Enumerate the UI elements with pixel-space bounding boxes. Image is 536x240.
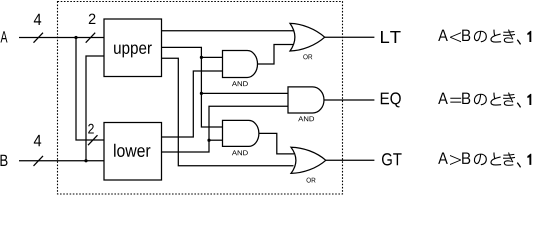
LT condition glyph A	[438, 30, 448, 41]
GT condition kana no	[474, 154, 487, 166]
wire EQ output from AND2	[324, 99, 374, 101]
GT condition kana ki	[503, 152, 515, 165]
wire AND1 output to OR1 bottom input	[258, 45, 295, 65]
EQ condition kana no	[474, 94, 487, 106]
wire upper EQ branch to AND1 top input	[201, 56, 222, 58]
label AND3	[232, 150, 248, 155]
label upper block	[114, 44, 152, 57]
LT condition comma	[517, 39, 521, 45]
EQ condition comma	[517, 102, 521, 108]
EQ condition kana to	[490, 93, 501, 106]
wire input B (4-bit bus)	[19, 160, 104, 162]
label LT output	[381, 31, 401, 43]
junction dot on B wire	[84, 159, 87, 162]
LT condition kana to	[490, 30, 501, 43]
wire A lower-bits branch to lower block	[76, 38, 104, 141]
slash 2-bit marker A into upper	[86, 33, 96, 43]
label AND2	[298, 116, 314, 121]
wire input A (4-bit bus)	[19, 37, 104, 39]
junction dot on A wire	[74, 36, 77, 39]
wire lower EQ output trunk to AND2 bottom input	[162, 106, 289, 152]
slash bus-width marker on A wire	[34, 33, 44, 43]
wire lower LT output to AND1 bottom input	[162, 71, 223, 137]
GT condition glyph B	[462, 153, 470, 164]
LT condition digit 1	[527, 31, 531, 42]
wire LT output from OR1	[325, 36, 375, 38]
wire lower EQ branch to AND3 bottom input	[209, 139, 223, 141]
wire upper LT output to OR1 top input	[162, 30, 295, 32]
junction dot upperEQ to AND1	[200, 56, 203, 59]
junction dot upperEQ to AND2	[200, 92, 203, 95]
label 4 bits on B bus	[34, 135, 41, 146]
and-gate AND2 (EQ output gate)	[288, 87, 324, 113]
label AND1	[232, 81, 248, 86]
junction dot lowerEQ to AND3	[207, 139, 210, 142]
EQ condition equals sign	[450, 98, 461, 103]
LT condition kana ki	[503, 29, 515, 42]
label lower block	[114, 144, 150, 157]
label EQ output	[381, 92, 401, 107]
and-gate AND1 (upperEQ and lowerLT)	[223, 51, 258, 78]
wire upper EQ output distribution trunk	[162, 47, 223, 127]
label OR1	[303, 54, 312, 59]
wire upper EQ branch to AND2 top input	[201, 92, 288, 94]
GT condition digit 1	[527, 154, 531, 165]
block lower (2-bit comparator)	[104, 123, 162, 181]
GT condition compare sign	[450, 155, 461, 165]
and-gate AND3 (GT path gate)	[223, 120, 259, 146]
label GT output	[382, 153, 402, 165]
GT condition comma	[517, 162, 521, 168]
wire AND3 output to OR2 top input	[259, 133, 294, 154]
label input B	[0, 155, 7, 166]
GT condition glyph A	[438, 153, 448, 164]
LT condition compare sign	[450, 32, 461, 42]
GT condition kana to	[490, 153, 501, 166]
label OR2	[307, 178, 316, 183]
EQ condition glyph A	[438, 93, 448, 104]
EQ condition kana ki	[503, 92, 515, 105]
LT condition kana no	[474, 31, 487, 43]
or-gate OR2 (GT output gate)	[291, 147, 326, 173]
label 4 bits on A bus	[34, 14, 41, 25]
or-gate OR1 (LT output gate)	[290, 23, 325, 51]
EQ condition digit 1	[527, 94, 531, 105]
label input A	[1, 31, 8, 42]
dotted border frame of comparator block	[58, 2, 343, 195]
slash bus-width marker on B wire	[34, 156, 44, 166]
slash 2-bit marker A into lower	[88, 135, 98, 145]
EQ condition glyph B	[462, 93, 470, 104]
wire B upper-bits branch to upper block	[86, 56, 104, 161]
wire upper GT output to OR2 bottom input	[162, 58, 294, 166]
block upper (2-bit comparator)	[104, 19, 162, 77]
wire GT output from OR2	[326, 159, 375, 161]
label 2 bits into lower	[88, 124, 94, 134]
LT condition glyph B	[462, 30, 470, 41]
label 2 bits into upper	[89, 14, 96, 24]
